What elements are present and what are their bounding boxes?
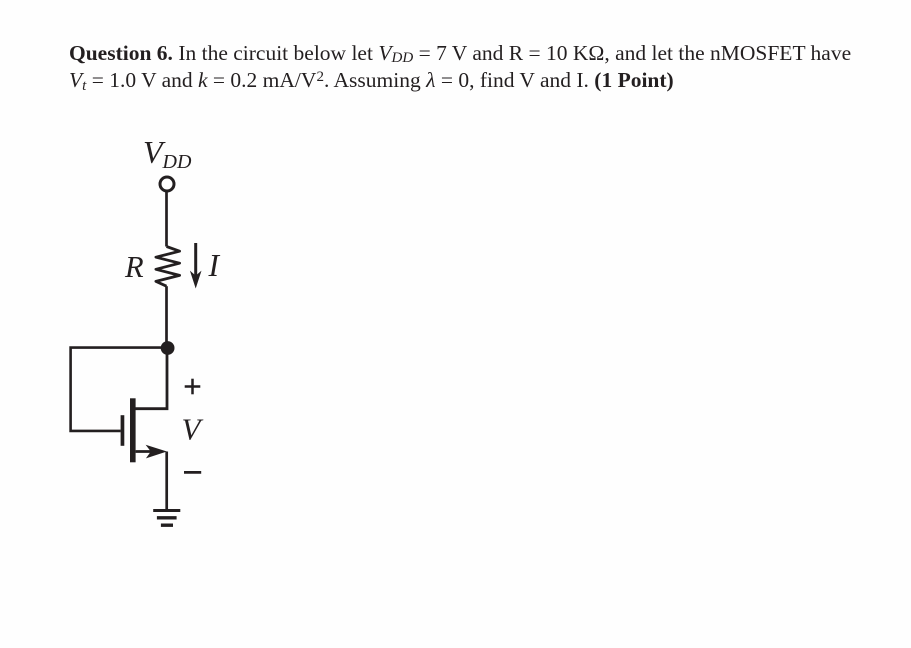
svg-text:I: I	[208, 248, 221, 283]
svg-text:V: V	[182, 411, 204, 446]
svg-text:DD: DD	[162, 151, 192, 173]
svg-text:R: R	[124, 250, 144, 284]
